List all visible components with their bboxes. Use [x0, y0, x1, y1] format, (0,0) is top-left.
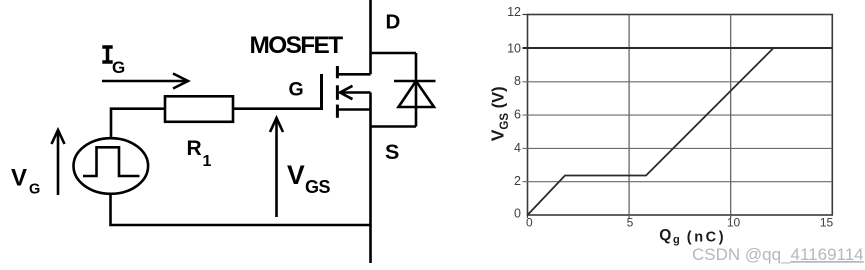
chart horizontal gridline y=8 [523, 81, 833, 83]
svg-text:G: G [289, 78, 304, 100]
pulse source VG [74, 138, 149, 194]
chart vertical gridline x=5 [628, 15, 630, 219]
wire drain vertical to D terminal [369, 0, 372, 74]
chart vertical gridline x=10 [730, 15, 732, 219]
svg-text:15: 15 [820, 216, 834, 230]
body diode D1 [394, 53, 436, 127]
node S label [385, 140, 399, 164]
svg-text:g: g [673, 234, 680, 246]
wire diode branch top [371, 52, 417, 55]
node G label [289, 78, 304, 100]
current arrow IG [102, 74, 188, 89]
svg-text:V: V [287, 160, 305, 190]
svg-text:(nC): (nC) [687, 229, 726, 245]
mosfet Q1 body arrow [340, 86, 371, 99]
svg-text:R: R [187, 137, 202, 160]
chart plot border [528, 15, 833, 216]
svg-text:Q: Q [659, 227, 671, 244]
wire bottom return [111, 194, 371, 225]
svg-text:CSDN @qq_41169114: CSDN @qq_41169114 [692, 245, 864, 264]
svg-text:MOSFET: MOSFET [250, 32, 344, 59]
svg-text:10: 10 [727, 216, 741, 230]
arrow VG polarity [52, 130, 65, 195]
svg-text:6: 6 [514, 108, 521, 122]
svg-text:0: 0 [526, 216, 533, 230]
svg-text:0: 0 [514, 207, 521, 221]
svg-text:D: D [386, 11, 401, 34]
label VGS [287, 160, 331, 197]
wire source vertical down [369, 93, 372, 264]
resistor R1 [165, 96, 233, 122]
wire R1 to gate node G [233, 107, 320, 110]
mosfet Q1 gate bar [320, 74, 323, 110]
chart x tick labels [526, 216, 834, 230]
wire diode branch bottom [371, 125, 417, 128]
mosfet Q1 channel bars [336, 66, 339, 118]
svg-text:10: 10 [507, 42, 521, 56]
chart tick y=12 [523, 14, 528, 16]
svg-text:12: 12 [507, 5, 521, 19]
svg-text:G: G [29, 182, 40, 198]
label IG [102, 47, 125, 77]
svg-text:GS: GS [305, 177, 331, 197]
label R1 [187, 137, 212, 170]
watermark CSDN [692, 245, 864, 264]
label VG [11, 165, 40, 198]
wire VG top to node A [111, 109, 165, 138]
chart horizontal gridline y=10 emphasized [523, 47, 833, 49]
svg-text:5: 5 [627, 216, 634, 230]
chart y axis title VGS (V) [488, 86, 512, 141]
svg-text:4: 4 [514, 141, 521, 155]
label MOSFET [250, 32, 344, 59]
chart horizontal gridline y=2 [523, 181, 833, 183]
svg-text:S: S [385, 140, 399, 164]
chart x axis title Qg (nC) [659, 227, 726, 246]
svg-text:VGS (V): VGS (V) [488, 86, 512, 141]
curve VGS vs Qg [528, 49, 774, 216]
chart horizontal gridline y=6 [523, 114, 833, 116]
svg-text:1: 1 [203, 153, 212, 170]
node D label [386, 11, 401, 34]
mosfet Q1 drain lead [339, 73, 371, 76]
arrow VGS [270, 118, 283, 217]
svg-text:G: G [112, 58, 125, 77]
svg-text:V: V [11, 165, 27, 192]
svg-text:8: 8 [514, 74, 521, 88]
chart y tick labels [507, 5, 521, 220]
svg-text:2: 2 [514, 174, 521, 188]
chart tick x=0 bottom [527, 215, 529, 218]
chart horizontal gridline y=4 [523, 147, 833, 149]
mosfet Q1 source lead [339, 108, 371, 111]
